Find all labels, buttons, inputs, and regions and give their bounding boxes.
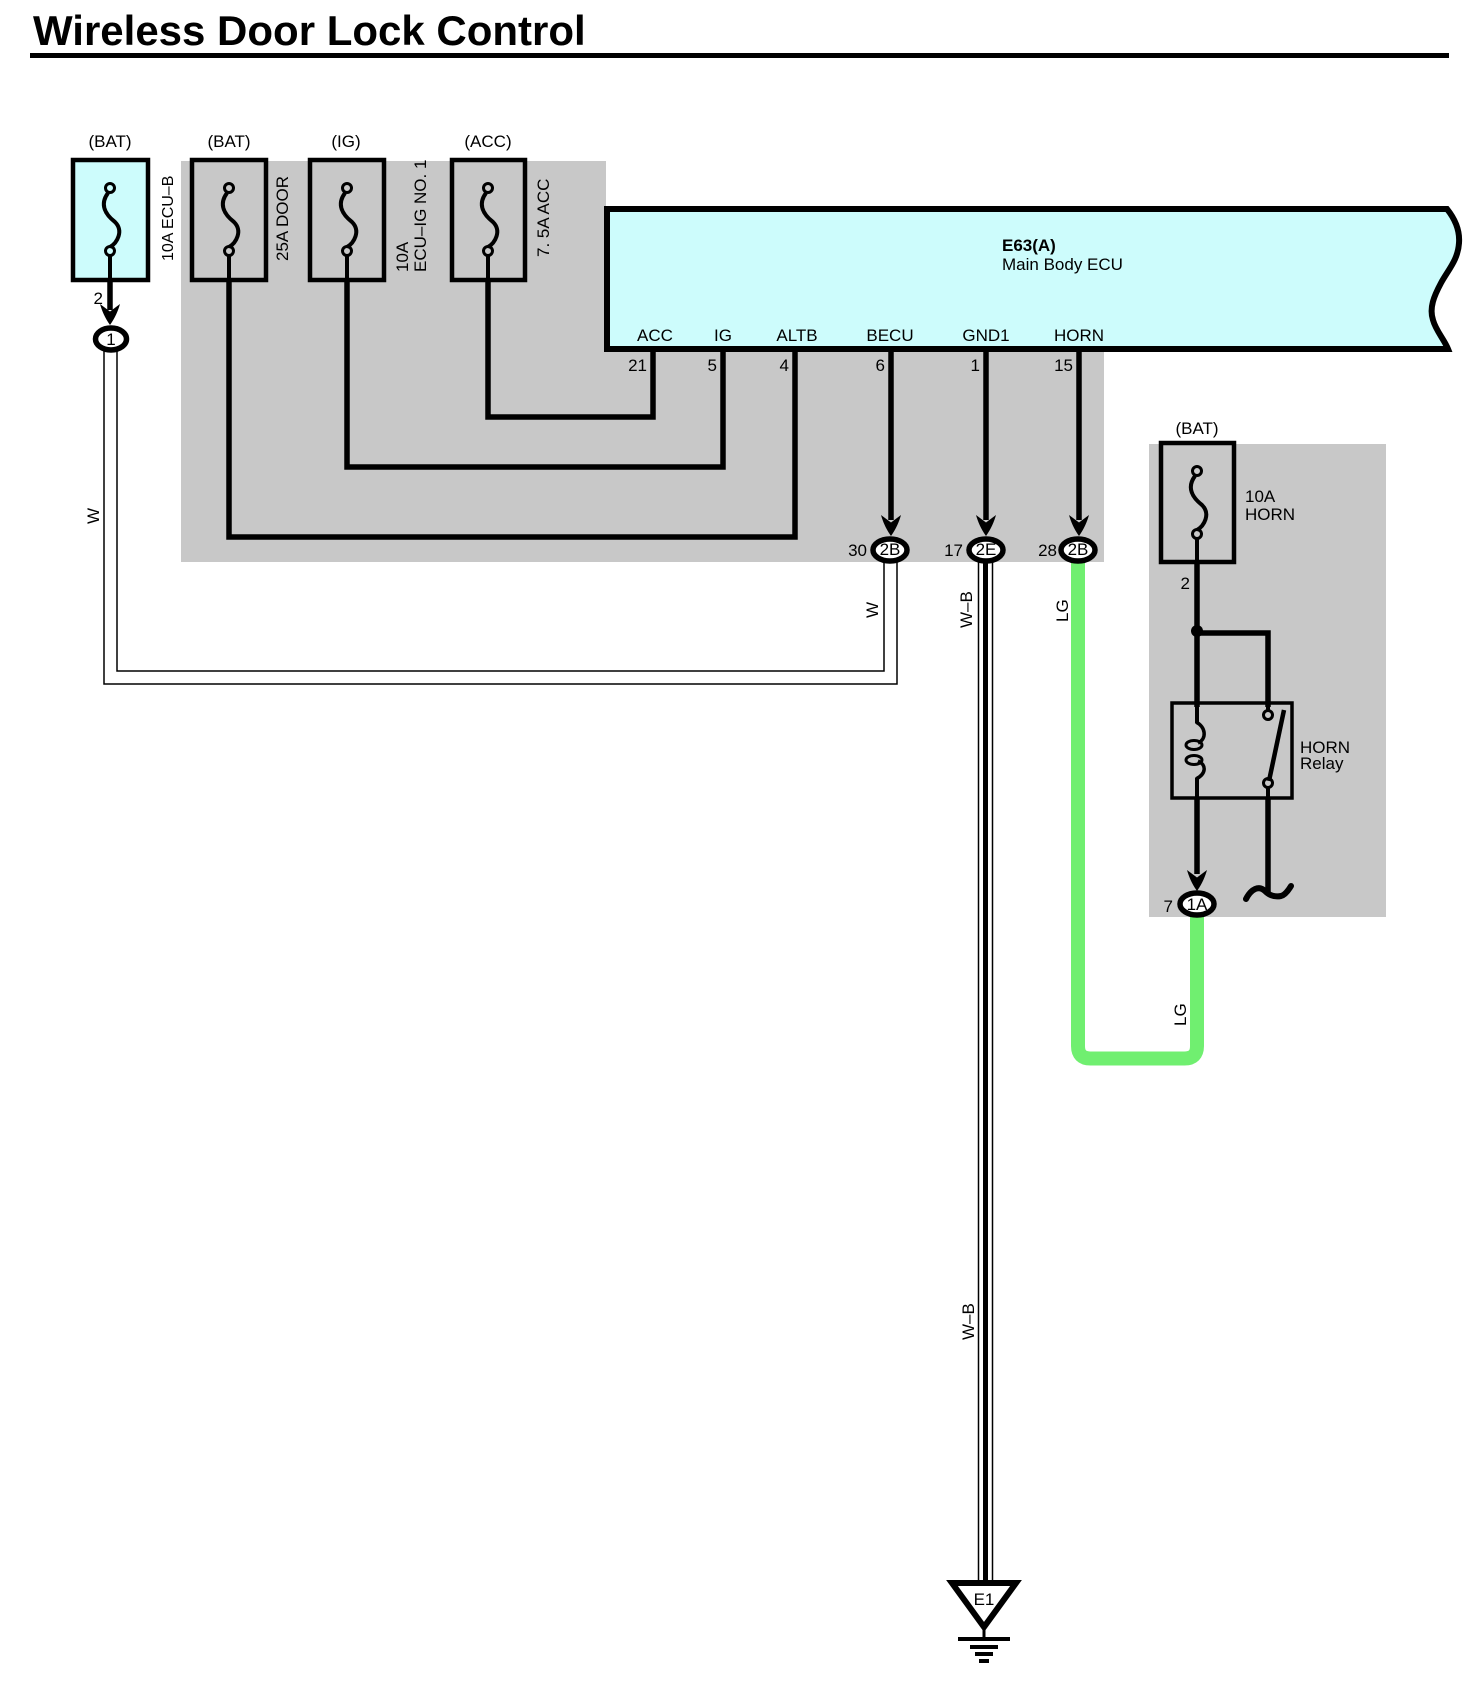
svg-text:28: 28 bbox=[1038, 541, 1057, 560]
arrow into connector 2B pin 30 bbox=[881, 515, 901, 536]
pin HORN stub wire bbox=[1076, 350, 1082, 520]
svg-text:4: 4 bbox=[780, 356, 789, 375]
svg-text:1: 1 bbox=[106, 330, 115, 349]
fuse 10A HORN bbox=[1161, 443, 1234, 562]
svg-text:15: 15 bbox=[1054, 356, 1073, 375]
svg-text:W–B: W–B bbox=[957, 591, 976, 628]
svg-text:(BAT): (BAT) bbox=[1175, 419, 1218, 438]
svg-text:7: 7 bbox=[1164, 897, 1173, 916]
horn relay gray area bbox=[1149, 444, 1386, 917]
svg-text:2E: 2E bbox=[976, 540, 997, 559]
svg-text:ALTB: ALTB bbox=[776, 326, 817, 345]
connector oval 1 bbox=[96, 328, 127, 350]
svg-text:1: 1 bbox=[971, 356, 980, 375]
svg-text:W: W bbox=[84, 508, 103, 524]
arrow into connector 2E pin 17 bbox=[976, 515, 996, 536]
ground stem bbox=[983, 1627, 986, 1639]
svg-text:10A ECU–B: 10A ECU–B bbox=[160, 176, 177, 261]
svg-text:LG: LG bbox=[1171, 1003, 1190, 1026]
fuse F3 ECU-IG NO.1 bbox=[310, 160, 384, 280]
junction block gray area bbox=[181, 161, 1104, 562]
ground bar 3 bbox=[975, 1652, 993, 1656]
svg-text:HORN: HORN bbox=[1054, 326, 1104, 345]
wire DOOR fuse to ECU pin 4 bbox=[229, 280, 795, 537]
arrow into connector 1 bbox=[100, 304, 120, 325]
wire junction branch to relay switch bbox=[1197, 633, 1268, 707]
connector oval 2B pin 30 bbox=[873, 539, 907, 561]
relay switch bbox=[1264, 703, 1285, 798]
title underline bbox=[30, 53, 1449, 58]
svg-text:7. 5A ACC: 7. 5A ACC bbox=[534, 179, 553, 257]
squiggle continuation symbol bbox=[1246, 886, 1291, 899]
pin GND1 stub wire bbox=[983, 350, 989, 520]
connector oval 2E pin 17 bbox=[969, 539, 1003, 561]
wire horn fuse to relay bbox=[1194, 562, 1200, 707]
svg-text:ACC: ACC bbox=[637, 326, 673, 345]
svg-text:6: 6 bbox=[876, 356, 885, 375]
wire LG green from connector 2B pin 28 to connector 1A bbox=[1078, 558, 1197, 1059]
pin BECU stub wire bbox=[888, 350, 894, 520]
svg-text:21: 21 bbox=[628, 356, 647, 375]
svg-text:IG: IG bbox=[714, 326, 732, 345]
arrow into connector 1A bbox=[1187, 870, 1207, 891]
connector oval 2B pin 28 bbox=[1061, 539, 1095, 561]
svg-text:E1: E1 bbox=[974, 1590, 995, 1609]
svg-text:(BAT): (BAT) bbox=[207, 132, 250, 151]
svg-text:BECU: BECU bbox=[866, 326, 913, 345]
svg-text:(BAT): (BAT) bbox=[88, 132, 131, 151]
svg-text:E63(A): E63(A) bbox=[1002, 236, 1056, 255]
svg-text:30: 30 bbox=[848, 541, 867, 560]
fuse F1 10A ECU-B bbox=[73, 160, 148, 280]
wire W white outline from connector 1 to connector 2B pin 30 bbox=[104, 350, 897, 684]
svg-text:W: W bbox=[863, 602, 882, 618]
svg-text:GND1: GND1 bbox=[962, 326, 1009, 345]
ground bar 1 bbox=[958, 1637, 1010, 1641]
svg-text:Main Body ECU: Main Body ECU bbox=[1002, 255, 1123, 274]
main body ECU E63(A) box bbox=[607, 209, 1459, 349]
ground bar 2 bbox=[970, 1645, 998, 1649]
svg-text:2B: 2B bbox=[880, 540, 901, 559]
ground bar 4 bbox=[979, 1659, 989, 1663]
fuse F4 7.5A ACC bbox=[452, 160, 525, 280]
svg-text:HORNRelay: HORNRelay bbox=[1300, 738, 1350, 773]
svg-text:2: 2 bbox=[94, 289, 103, 308]
svg-text:25A DOOR: 25A DOOR bbox=[273, 176, 292, 261]
horn relay box bbox=[1172, 703, 1292, 798]
svg-text:(ACC): (ACC) bbox=[464, 132, 511, 151]
svg-text:2: 2 bbox=[1181, 574, 1190, 593]
wire IG fuse to ECU pin 5 bbox=[347, 280, 723, 467]
svg-text:(IG): (IG) bbox=[331, 132, 360, 151]
fuse F2 25A DOOR bbox=[192, 160, 266, 280]
wire ECU-B fuse to connector 1 bbox=[107, 280, 113, 310]
wire relay to connector 1A bbox=[1194, 798, 1200, 874]
junction dot bbox=[1191, 625, 1203, 637]
connector oval 1A bbox=[1180, 893, 1214, 915]
wire ACC fuse to ECU pin 21 bbox=[488, 280, 653, 417]
relay coil bbox=[1186, 703, 1204, 798]
svg-text:Wireless Door Lock Control: Wireless Door Lock Control bbox=[33, 7, 586, 54]
svg-text:2B: 2B bbox=[1068, 540, 1089, 559]
arrow into connector 2B pin 28 bbox=[1069, 515, 1089, 536]
svg-text:1A: 1A bbox=[1187, 895, 1208, 914]
ground E1 triangle bbox=[952, 1583, 1016, 1627]
wire relay switch to horn (continues) bbox=[1265, 798, 1271, 893]
svg-text:5: 5 bbox=[708, 356, 717, 375]
svg-text:17: 17 bbox=[944, 541, 963, 560]
svg-text:LG: LG bbox=[1053, 599, 1072, 622]
wire W-B from connector 2E to ground E1 bbox=[978, 560, 980, 1583]
svg-text:W–B: W–B bbox=[959, 1303, 978, 1340]
